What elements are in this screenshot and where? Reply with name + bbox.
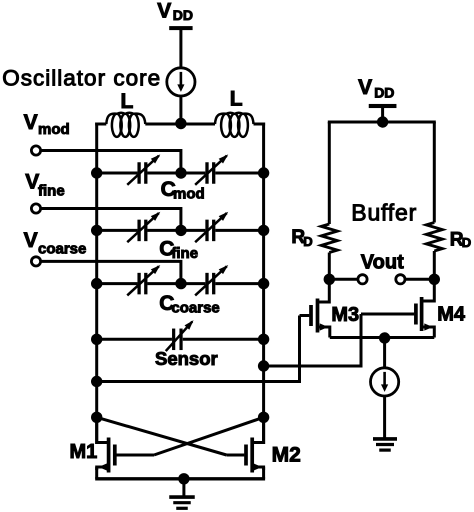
svg-text:V: V	[157, 0, 171, 23]
svg-text:Vout: Vout	[361, 251, 404, 273]
svg-text:fine: fine	[38, 183, 65, 200]
svg-text:V: V	[358, 76, 372, 99]
svg-text:Buffer: Buffer	[351, 200, 417, 226]
svg-text:mod: mod	[38, 121, 70, 138]
svg-text:M4: M4	[437, 304, 466, 326]
svg-text:V: V	[24, 229, 38, 252]
svg-text:L: L	[230, 88, 243, 111]
svg-text:V: V	[24, 111, 38, 134]
svg-text:Sensor: Sensor	[155, 348, 218, 369]
svg-text:fine: fine	[171, 245, 198, 262]
svg-text:M2: M2	[272, 443, 301, 466]
svg-text:DD: DD	[374, 85, 394, 101]
svg-text:D: D	[462, 235, 471, 250]
svg-text:coarse: coarse	[38, 241, 86, 258]
svg-text:coarse: coarse	[171, 300, 219, 317]
svg-text:M3: M3	[331, 304, 359, 326]
svg-text:mod: mod	[173, 186, 205, 203]
svg-text:Oscillator core: Oscillator core	[2, 66, 161, 91]
svg-text:DD: DD	[173, 7, 193, 23]
svg-text:M1: M1	[70, 441, 98, 463]
svg-text:D: D	[303, 234, 312, 249]
svg-text:L: L	[121, 90, 134, 113]
